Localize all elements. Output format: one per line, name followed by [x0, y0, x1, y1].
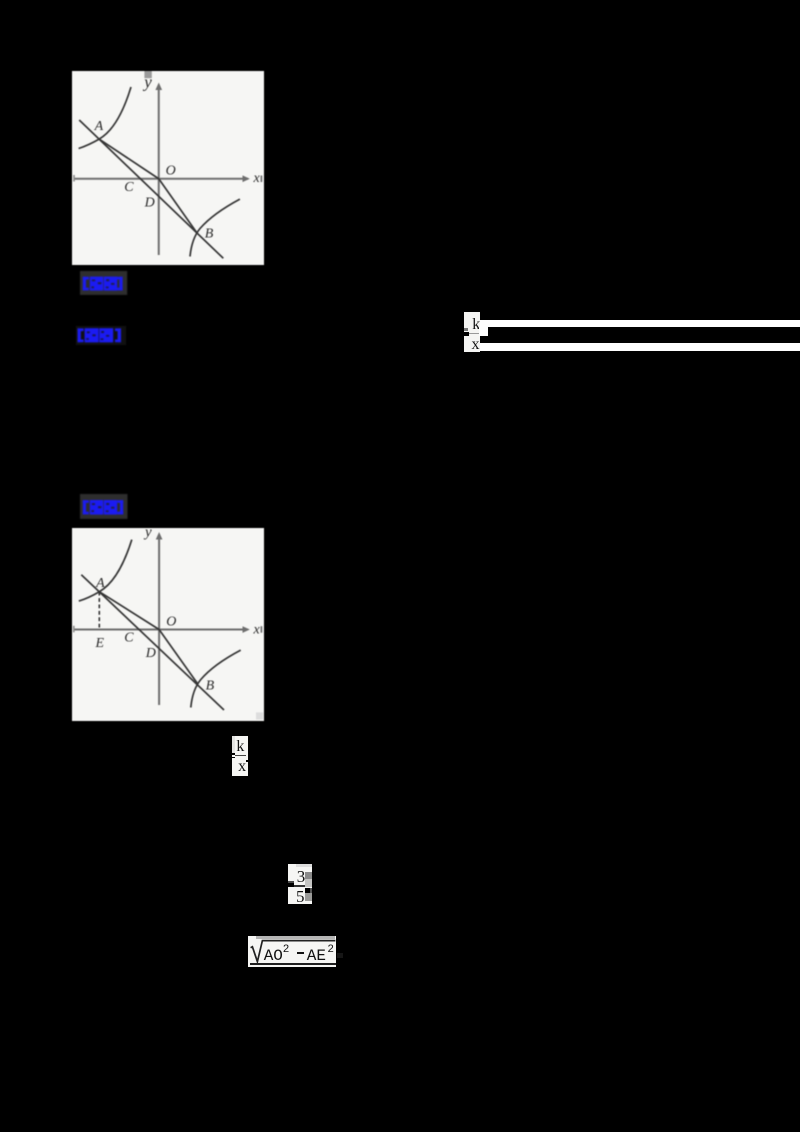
x-axis left tick — [73, 625, 75, 632]
equals remnant gray — [464, 328, 467, 331]
svg-text:D: D — [145, 645, 156, 660]
x denominator — [238, 758, 246, 776]
inline formula k/x (second occurrence) — [232, 736, 248, 776]
glyph dian — [104, 277, 117, 291]
svg-text:B: B — [206, 678, 215, 693]
glyph xi — [99, 328, 113, 342]
left bracket — [83, 501, 86, 515]
left bracket — [77, 328, 80, 342]
k numerator — [236, 738, 244, 756]
svg-text:x: x — [253, 622, 261, 637]
blue tag 【分析】 — [76, 326, 126, 345]
digit 3 — [297, 867, 306, 887]
segment OB — [159, 629, 198, 684]
dark square after sqrt — [337, 953, 343, 958]
white stripe upper — [480, 320, 800, 327]
y-axis arrowhead — [155, 83, 162, 91]
white stripe lower — [480, 343, 800, 351]
x-axis left tick — [73, 175, 75, 182]
svg-text:B: B — [205, 226, 214, 241]
x-axis arrowhead — [243, 175, 250, 182]
hyperbola branch quadrant II through A — [79, 87, 131, 149]
svg-text:O: O — [166, 163, 176, 178]
white notch — [479, 327, 488, 337]
glyph kao — [90, 277, 103, 291]
x denominator — [472, 336, 480, 354]
svg-text:x: x — [253, 171, 261, 186]
minus — [297, 952, 303, 954]
svg-text:C: C — [124, 180, 134, 195]
dashed segment AE — [98, 591, 100, 628]
figure 1: coordinate graph with hyperbola and line AB — [72, 71, 264, 265]
AO letters — [264, 947, 283, 965]
svg-text:A: A — [94, 119, 104, 134]
svg-text:y: y — [143, 528, 152, 540]
axes — [74, 534, 248, 705]
right bracket — [119, 277, 122, 291]
AE letters — [307, 947, 326, 965]
right bracket — [120, 501, 123, 515]
fraction bar — [294, 885, 306, 887]
glyph da — [104, 500, 117, 515]
bottom underline — [250, 963, 336, 965]
svg-text:C: C — [124, 630, 134, 645]
gray artifact square top — [144, 71, 151, 78]
x-axis arrowhead — [243, 626, 250, 633]
glyph jie — [90, 500, 103, 515]
segment AO — [99, 139, 159, 179]
fraction bar — [469, 333, 480, 335]
gray top strip — [256, 936, 335, 939]
left bracket — [83, 277, 86, 291]
sqrt(AO^2-AE^2) formula — [248, 936, 336, 967]
right edge bar — [261, 176, 263, 183]
equals remnant — [288, 881, 294, 883]
equals remnant black — [464, 332, 470, 335]
radical sign — [248, 936, 337, 967]
inline formula k/x with white stripes (first occurrence) — [464, 312, 481, 353]
segment AO — [99, 591, 159, 629]
figure 2 white background — [72, 528, 264, 721]
fraction bar — [235, 755, 246, 757]
hyperbola branch quadrant IV near B — [191, 650, 241, 707]
hyperbola branch quadrant II through A — [79, 539, 132, 601]
digit 5 — [296, 887, 305, 907]
right edge bar — [261, 626, 263, 633]
equals sign left — [232, 753, 235, 755]
hyperbola branch quadrant IV near B — [190, 199, 240, 256]
k numerator — [472, 316, 480, 334]
blue tag 【解答】 on dark box — [80, 494, 128, 519]
gray artifact square bottom right — [256, 712, 263, 719]
superscript 2 — [327, 944, 334, 956]
figure 2: graph with E and dashed AE — [72, 528, 264, 721]
segment OB — [159, 179, 197, 233]
superscript 2 — [283, 944, 290, 956]
dot right — [246, 760, 248, 762]
y-axis — [74, 85, 248, 255]
glyph fen — [84, 328, 98, 342]
y-axis arrowhead — [156, 532, 163, 540]
svg-text:A: A — [95, 576, 105, 591]
right bracket — [117, 328, 120, 342]
line AB through C and D — [79, 120, 223, 258]
fraction 3/5 — [288, 864, 312, 904]
figure 1 white background — [72, 71, 264, 265]
gray artifact blocks — [305, 872, 312, 879]
line AB through C and D — [81, 574, 224, 709]
svg-text:E: E — [95, 635, 105, 650]
svg-text:O: O — [166, 614, 176, 629]
blue tag 【考点】 on dark box — [80, 271, 128, 295]
svg-text:D: D — [144, 195, 155, 210]
svg-text:y: y — [142, 73, 152, 92]
